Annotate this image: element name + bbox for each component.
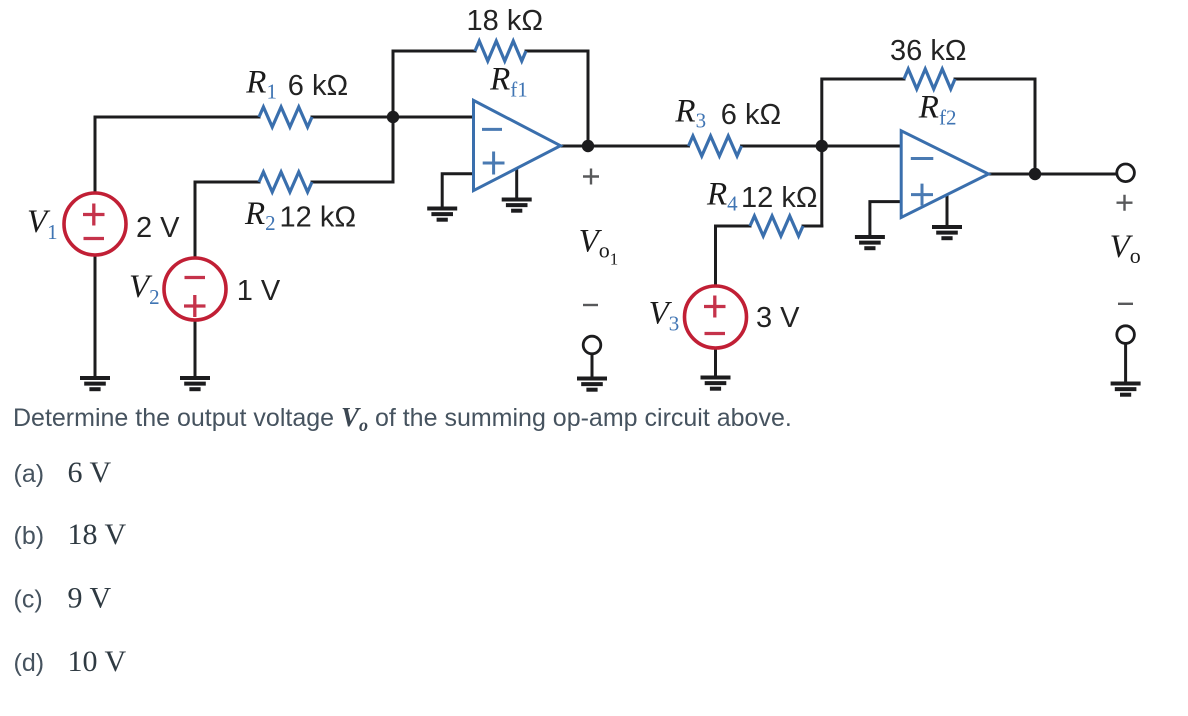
wire terminal Vo1 stem [591,354,594,376]
op-amp U1 minus input symbol [482,128,502,131]
source V3 plus sign [704,296,726,318]
op-amp U1 [474,100,561,190]
wire V2 bottom [194,320,197,376]
wire R3 right to node B and op-amp U2 inverting input [742,145,902,148]
svg-text:18 kΩ: 18 kΩ [467,5,544,37]
svg-text:R3: R3 [674,94,706,133]
wire V1 top to R1 [95,117,259,193]
terminal Vo1 open circle [583,336,601,354]
resistor R4 zigzag [750,216,803,236]
svg-text:3 V: 3 V [756,302,800,334]
svg-text:(c): (c) [14,586,43,614]
ground under op-amp U1 [502,200,532,211]
terminal Vo lower open circle [1117,326,1135,344]
minus polarity mark Vo1 [583,304,598,306]
node A junction dot [387,111,399,123]
svg-text:6 kΩ: 6 kΩ [721,99,781,131]
wire op-amp U2 noninverting input to ground [870,202,901,235]
wire node B vertical (feedback 2 tap down to R4 row) [822,79,904,226]
svg-text:18 V: 18 V [68,518,127,551]
wire R4 right to node B [803,225,822,228]
source V3 minus sign [705,332,726,335]
ground at op-amp U2 noninverting input [855,237,885,248]
svg-text:12 kΩ: 12 kΩ [741,182,818,214]
ground under terminal Vo lower [1111,384,1141,395]
source V1 circle [64,193,126,255]
svg-text:10 V: 10 V [68,645,127,678]
wire op-amp U2 output to terminal Vo [987,173,1117,176]
ground under V3 [701,378,731,389]
svg-text:(a): (a) [14,460,45,488]
resistor R2 zigzag [259,172,312,192]
source V2 circle [164,258,226,320]
svg-text:V1: V1 [27,204,58,244]
svg-text:9 V: 9 V [68,582,112,615]
source V1 plus sign [83,204,105,226]
svg-text:(b): (b) [14,522,45,550]
wire R1 right to op-amp U1 inverting input [312,116,474,119]
svg-text:R2: R2 [244,196,276,235]
op-amp U2 [901,131,988,218]
wire op-amp U1 noninverting input to ground [442,174,473,206]
svg-text:12 kΩ: 12 kΩ [280,202,357,234]
source V2 plus sign [184,295,206,317]
svg-text:36 kΩ: 36 kΩ [890,35,967,67]
wire R2 right to node A [312,181,393,184]
source V1 minus sign [84,237,105,240]
op-amp U1 plus input symbol [483,152,505,175]
op-amp U2 plus input symbol [911,184,933,206]
source V3 circle [685,286,747,348]
svg-text:V2: V2 [129,269,160,309]
wire V3 bottom [714,348,717,375]
svg-text:R4: R4 [706,176,738,215]
wire feedback 1 left segment [393,50,475,53]
resistor R1 zigzag [259,107,312,127]
source V2 minus sign [185,276,206,279]
wire op-amp U1 bottom stem [515,169,518,197]
wire feedback 1 right segment down to output [526,51,588,146]
resistor Rf2 zigzag [904,69,955,89]
svg-text:Vo: Vo [1110,229,1141,268]
terminal Vo upper open circle [1117,164,1135,182]
svg-text:Determine the output voltage V: Determine the output voltage Vo of the s… [13,402,792,435]
svg-text:Vo1: Vo1 [579,224,619,269]
wire op-amp U2 bottom stem [946,196,949,225]
op-amp U2 minus input symbol [911,157,934,160]
svg-text:1 V: 1 V [237,275,281,307]
wire V2 top to R2 [195,182,259,258]
wire node A vertical (feedback tap down to R2 row) [392,51,395,182]
svg-text:6 kΩ: 6 kΩ [288,70,348,102]
ground at op-amp U1 noninverting input [427,209,457,220]
wire terminal Vo lower stem [1124,344,1127,381]
ground under op-amp U2 [932,227,962,238]
svg-text:6 V: 6 V [68,456,112,489]
wire V1 bottom [94,255,97,376]
wire R4 left to V3 top [716,226,751,286]
node U1 output junction dot [582,140,594,152]
node B junction dot [816,140,828,152]
svg-text:2 V: 2 V [136,212,180,244]
minus polarity mark Vo [1118,303,1133,305]
wire op-amp U1 output to R3 [559,145,689,148]
svg-text:Rf2: Rf2 [918,90,957,130]
resistor Rf1 zigzag [475,41,526,61]
svg-text:R1: R1 [245,65,277,104]
svg-text:Rf1: Rf1 [489,61,528,101]
wire feedback 2 right segment down to output [955,79,1035,173]
svg-text:(d): (d) [14,649,45,677]
ground under terminal Vo1 [577,379,607,390]
plus polarity mark Vo1 [583,169,599,185]
ground under V1 [80,378,110,389]
plus polarity mark Vo [1117,195,1133,211]
svg-text:V3: V3 [649,296,680,336]
resistor R3 zigzag [689,136,742,156]
node U2 output junction dot [1029,168,1041,180]
ground under V2 [180,378,210,389]
